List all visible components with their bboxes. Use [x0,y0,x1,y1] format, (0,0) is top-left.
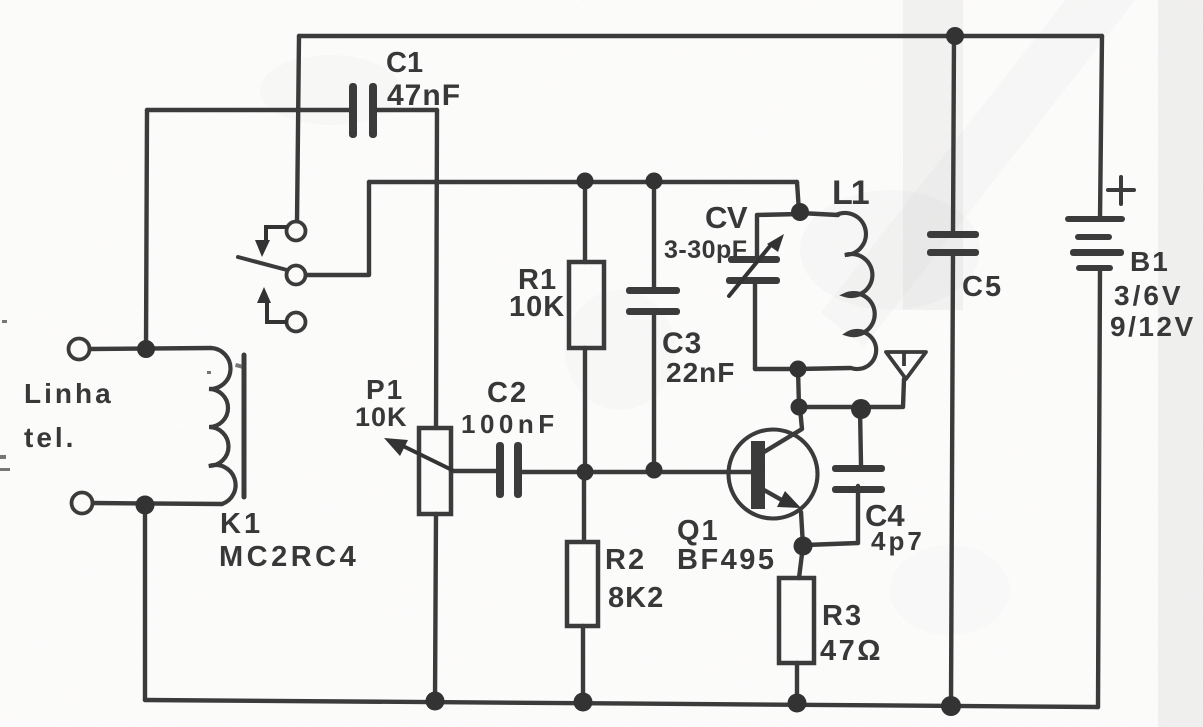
transistor Q1 [729,430,818,519]
scan artifact marks [0,320,243,471]
resistor R2 [567,542,598,626]
node emitter / C4 [794,537,813,556]
wire collector node to antenna branch [799,405,901,409]
B1 plus sign [1108,177,1134,204]
wire R1 bottom lead [583,348,587,472]
svg-text:tel.: tel. [24,422,76,453]
wire C1 left lead [147,108,349,112]
svg-text:L1: L1 [832,174,869,212]
svg-text:B1: B1 [1130,246,1170,277]
capacitor C3 [626,287,680,315]
line terminal 2 [72,493,93,514]
svg-text:BF495: BF495 [677,544,777,576]
switch arrow top [255,227,286,257]
wire collector lead [764,408,802,452]
wire CV bottom lead [753,280,757,369]
svg-text:CV: CV [705,200,748,235]
node ground / P1 [426,692,445,711]
node tank top [791,203,809,221]
wire mid rail [369,180,797,184]
wire switch middle to mid rail [306,182,369,275]
wire C4 bottom lead [806,486,858,545]
wire C1 right down to P1 top [436,110,437,428]
capacitor C1 [349,83,377,138]
node K1 bottom [136,496,155,515]
wire bottom ground rail [145,700,1098,707]
wire left drop from top rail to switch top [297,36,299,222]
svg-text:R3: R3 [822,600,863,632]
node C4 top / antenna [851,399,871,419]
svg-text:100nF: 100nF [461,409,559,439]
svg-text:8K2: 8K2 [608,582,664,614]
wire tank to collector node [798,369,799,407]
wire mid rail corner down to tank top [797,182,799,212]
wire line terminal 2 lead [93,503,222,504]
wire L1 top lead [800,213,838,215]
wire C3 top lead [652,181,656,290]
node ground / R2 [574,693,593,712]
svg-text:R2: R2 [605,544,646,576]
capacitor C2 [496,442,522,498]
wire right drop from top rail to battery [1100,36,1102,219]
wire P1 wiper to C2 [451,469,496,473]
wire P1 bottom to ground rail [435,514,436,701]
wire K1 left drop to ground rail [143,505,147,700]
capacitor C5 [927,231,979,256]
svg-text:22nF: 22nF [666,357,735,388]
potentiometer P1 [419,428,451,514]
node K1 top [137,340,155,358]
switch lever [238,257,287,270]
node top rail / C5 [946,27,964,45]
wire R3 bottom lead [795,663,799,703]
battery B1 [1065,216,1125,271]
inductor L1 [836,213,876,369]
wire C4 top lead [860,408,861,465]
svg-text:C1: C1 [386,47,423,79]
svg-text:C2: C2 [487,377,528,409]
svg-text:MC2RC4: MC2RC4 [219,541,359,573]
svg-text:10K: 10K [355,402,408,432]
wire antenna stem [903,379,904,407]
K1 core [242,355,247,497]
node mid rail / R1 [577,173,594,190]
svg-text:P1: P1 [366,374,404,405]
wire C1 left corner down to K1 top junction [146,110,147,349]
svg-text:47Ω: 47Ω [820,635,883,667]
svg-text:10K: 10K [509,291,565,323]
wire C5 bottom lead [951,252,953,706]
capacitor C4 [832,465,885,493]
svg-text:Q1: Q1 [677,515,720,547]
wire C5 drop from top rail [953,36,954,234]
wire R2 top lead [582,472,586,542]
wire top rail [299,34,1102,38]
svg-text:3-30pF: 3-30pF [664,236,748,264]
switch S1 [287,222,306,332]
wire R1 top lead [583,181,587,262]
node mid rail / C3 [646,173,663,190]
node tank bottom [790,361,807,378]
wire tank bottom [755,367,797,371]
svg-text:47nF: 47nF [387,79,461,112]
wire R2 bottom lead [581,626,585,702]
wire C3 bottom lead [652,311,656,470]
wire C1 right lead [377,108,437,112]
svg-text:C3: C3 [662,327,702,360]
wire B1 bottom lead [1098,268,1100,707]
transformer K1 [209,348,244,504]
wire emitter to R3 [799,512,803,578]
line terminal 1 [69,339,90,360]
svg-text:3/6V: 3/6V [1114,280,1184,311]
resistor R1 [569,262,604,348]
wire L1 bottom lead [797,368,850,369]
antenna [886,352,926,379]
node collector [791,399,808,416]
node base / R1 R2 [577,464,594,481]
wire line terminal 1 lead [90,348,211,349]
svg-text:Linha: Linha [24,378,114,409]
Q1 emitter with arrow [764,490,787,503]
switch arrow bottom [257,287,286,322]
resistor R3 [779,578,814,663]
Q1 base bar [751,441,765,509]
svg-text:K1: K1 [220,508,263,540]
svg-text:C5: C5 [962,271,1003,303]
node ground / C5 [941,696,961,716]
trimmer capacitor CV [726,256,780,284]
svg-text:9/12V: 9/12V [1110,311,1196,342]
node ground / R3 [788,694,807,713]
node base / C3 [646,462,663,479]
wire base lead [522,470,751,474]
wire CV top lead [757,214,800,259]
svg-text:4p7: 4p7 [871,526,925,556]
